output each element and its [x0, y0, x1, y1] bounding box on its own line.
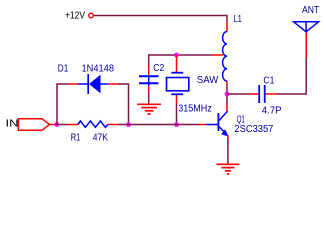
node SAW top junction — [174, 53, 179, 58]
node collector junction — [225, 92, 230, 97]
wire +12V rail to L1 top — [94, 16, 228, 23]
wire left riser to D1 — [57, 84, 69, 125]
antenna ANT — [294, 22, 319, 32]
pin R1 left — [68, 124, 78, 126]
pin D1 left — [68, 83, 78, 85]
pin C2 bottom — [148, 86, 150, 92]
pin SAW bottom — [176, 95, 178, 105]
diode D1 — [78, 74, 109, 94]
wire emitter to ground — [227, 139, 229, 164]
node IN junction — [54, 122, 59, 127]
ground G2 — [217, 164, 240, 174]
wire C1 to antenna — [277, 58, 306, 94]
pin Q1 collector — [226, 103, 228, 111]
SAW resonator — [167, 73, 189, 95]
power port +12V — [65, 11, 93, 22]
pin C1 left — [249, 93, 259, 95]
port IN — [6, 119, 50, 131]
pin L1 top — [226, 22, 228, 33]
pin C1 right — [266, 93, 278, 95]
capacitor C2 — [139, 76, 159, 87]
svg-text:SAW: SAW — [197, 75, 219, 86]
svg-text:4.7P: 4.7P — [262, 106, 282, 117]
pin Q1 base — [199, 124, 207, 126]
transistor Q1 — [206, 111, 229, 137]
pin SAW top — [176, 55, 178, 73]
wire node to R1 — [57, 124, 69, 126]
wire mid tap rail (C2 top to L1 tap) — [149, 55, 212, 68]
svg-text:D1: D1 — [58, 64, 69, 75]
svg-text:47K: 47K — [93, 132, 108, 143]
pin Q1 emitter — [227, 135, 229, 140]
pin tap to L1 — [212, 54, 224, 56]
svg-text:ANT: ANT — [302, 5, 319, 16]
wire L1 bottom to collector node — [226, 85, 228, 104]
capacitor C1 — [259, 85, 265, 103]
node base rail junction — [174, 122, 179, 127]
wire R1 to base rail — [118, 124, 200, 126]
ground G1 — [137, 104, 161, 114]
svg-text:1N4148: 1N4148 — [82, 64, 115, 75]
resistor R1 — [78, 121, 108, 127]
wire node to C1 — [227, 93, 250, 95]
svg-text:+12V: +12V — [65, 11, 85, 22]
wire C2 to ground — [148, 92, 150, 105]
pin D1 right — [109, 83, 119, 85]
wire SAW bottom to base rail — [176, 104, 178, 125]
svg-text:R1: R1 — [71, 132, 81, 143]
svg-text:IN: IN — [6, 119, 19, 130]
wire D1 right riser — [118, 84, 129, 125]
svg-text:315MHz: 315MHz — [178, 104, 212, 115]
pin antenna — [305, 32, 307, 59]
svg-text:2SC3357: 2SC3357 — [234, 124, 273, 135]
svg-text:C2: C2 — [153, 63, 164, 74]
wire IN to node — [50, 124, 57, 126]
pin R1 right — [108, 124, 119, 126]
svg-text:C1: C1 — [263, 75, 274, 86]
pin C2 top — [148, 67, 150, 77]
inductor L1 — [223, 32, 227, 82]
svg-text:L1: L1 — [234, 14, 242, 25]
pin L1 bottom — [226, 81, 228, 85]
node R1 right junction — [126, 122, 131, 127]
